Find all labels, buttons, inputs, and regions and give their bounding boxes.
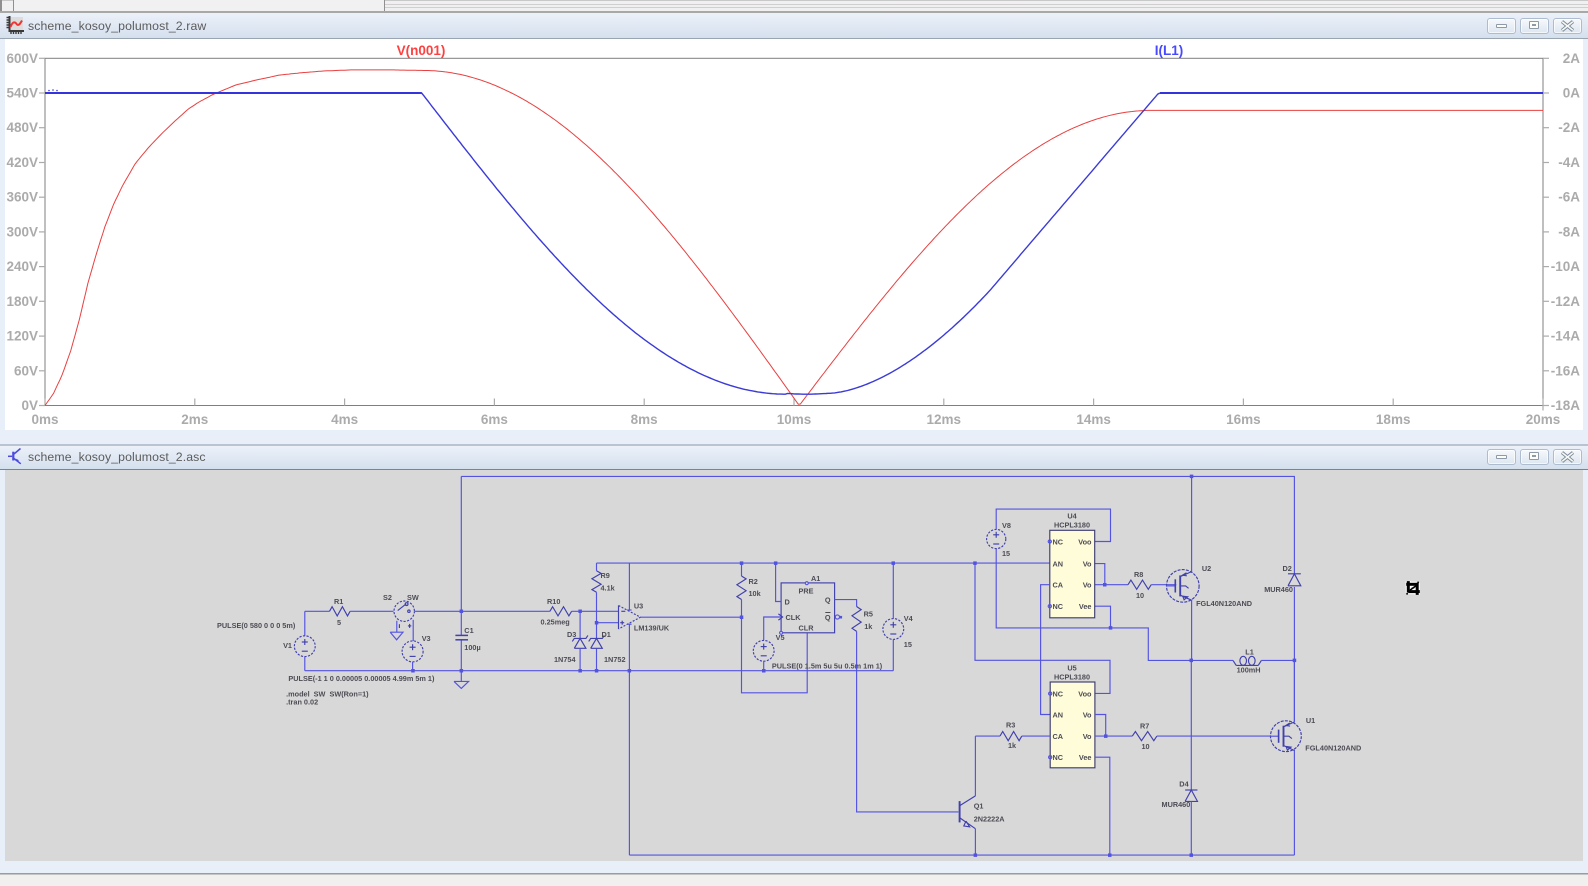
svg-text:10: 10 (1136, 591, 1144, 600)
svg-text:HCPL3180: HCPL3180 (1054, 521, 1090, 530)
svg-text:-2A: -2A (1558, 120, 1580, 135)
svg-text:Vo: Vo (1083, 710, 1092, 719)
svg-text:NC: NC (1053, 602, 1064, 611)
svg-text:PULSE(0 1.5m 5u 5u 0.5m 1m 1): PULSE(0 1.5m 5u 5u 0.5m 1m 1) (772, 662, 883, 671)
svg-text:NC: NC (1053, 753, 1064, 762)
svg-text:-12A: -12A (1551, 294, 1581, 309)
svg-text:540V: 540V (6, 86, 38, 101)
svg-text:-14A: -14A (1551, 329, 1581, 344)
svg-text:AN: AN (1053, 710, 1064, 719)
svg-text:PULSE(0 580 0 0 0 5m): PULSE(0 580 0 0 0 5m) (217, 621, 296, 630)
svg-text:U1: U1 (1306, 716, 1315, 725)
svg-text:0.25meg: 0.25meg (541, 618, 570, 627)
svg-text:V3: V3 (422, 634, 431, 643)
svg-text:120V: 120V (6, 329, 38, 344)
svg-text:Vee: Vee (1079, 753, 1092, 762)
svg-text:Q1: Q1 (974, 802, 984, 811)
svg-text:180V: 180V (6, 294, 38, 309)
svg-text:CLK: CLK (786, 613, 802, 622)
svg-text:LM139/UK: LM139/UK (634, 624, 670, 633)
svg-text:15: 15 (904, 640, 912, 649)
svg-text:240V: 240V (6, 259, 38, 274)
svg-text:R2: R2 (749, 577, 758, 586)
svg-text:10ms: 10ms (777, 412, 812, 427)
svg-text:100mH: 100mH (1237, 666, 1261, 675)
svg-text:D4: D4 (1179, 780, 1189, 789)
svg-text:Q: Q (825, 596, 831, 605)
svg-text:-16A: -16A (1551, 363, 1581, 378)
svg-text:V5: V5 (776, 633, 785, 642)
svg-text:Vo: Vo (1083, 559, 1092, 568)
svg-text:600V: 600V (6, 51, 38, 66)
svg-text:NC: NC (1053, 537, 1064, 546)
svg-text:PULSE(-1 1 0 0.00005 0.00005 4: PULSE(-1 1 0 0.00005 0.00005 4.99m 5m 1) (288, 674, 435, 683)
svg-text:Vee: Vee (1079, 602, 1092, 611)
svg-text:CLR: CLR (799, 623, 815, 632)
svg-text:2N2222A: 2N2222A (974, 815, 1006, 824)
svg-text:V4: V4 (904, 614, 914, 623)
svg-text:-18A: -18A (1551, 398, 1581, 413)
svg-text:Vo: Vo (1083, 732, 1092, 741)
svg-text:L1: L1 (1245, 648, 1254, 657)
svg-text:5: 5 (337, 618, 341, 627)
svg-text:A1: A1 (811, 574, 820, 583)
svg-text:D3: D3 (567, 630, 576, 639)
svg-text:60V: 60V (14, 363, 38, 378)
svg-text:1k: 1k (1008, 741, 1017, 750)
svg-text:1N752: 1N752 (604, 655, 626, 664)
svg-text:Voo: Voo (1078, 689, 1092, 698)
svg-text:AN: AN (1053, 559, 1064, 568)
svg-text:D2: D2 (1283, 564, 1292, 573)
svg-text:FGL40N120AND: FGL40N120AND (1196, 599, 1252, 608)
svg-text:6ms: 6ms (481, 412, 508, 427)
svg-text:R3: R3 (1006, 721, 1015, 730)
svg-text:R5: R5 (864, 610, 873, 619)
svg-text:10k: 10k (749, 589, 762, 598)
svg-text:MUR460: MUR460 (1162, 800, 1191, 809)
svg-text:R7: R7 (1140, 722, 1149, 731)
svg-text:MUR460: MUR460 (1264, 585, 1293, 594)
svg-text:Vo: Vo (1083, 581, 1092, 590)
svg-text:I(L1): I(L1) (1155, 43, 1184, 58)
svg-text:8ms: 8ms (631, 412, 658, 427)
svg-text:FGL40N120AND: FGL40N120AND (1305, 744, 1361, 753)
svg-text:V8: V8 (1002, 521, 1011, 530)
svg-text:PRE: PRE (798, 587, 813, 596)
svg-text:0ms: 0ms (31, 412, 58, 427)
svg-text:420V: 420V (6, 155, 38, 170)
svg-text:NC: NC (1053, 689, 1064, 698)
svg-text:R8: R8 (1134, 570, 1143, 579)
svg-text:-8A: -8A (1558, 224, 1580, 239)
svg-text:R1: R1 (334, 597, 343, 606)
svg-text:SW: SW (407, 593, 419, 602)
svg-text:V1: V1 (283, 641, 292, 650)
svg-text:100µ: 100µ (464, 643, 480, 652)
svg-text:Q: Q (825, 613, 831, 622)
svg-text:4.1k: 4.1k (601, 584, 616, 593)
svg-text:4ms: 4ms (331, 412, 358, 427)
svg-text:R10: R10 (547, 597, 560, 606)
svg-text:U5: U5 (1067, 664, 1076, 673)
svg-text:U4: U4 (1067, 512, 1077, 521)
svg-text:U3: U3 (634, 602, 643, 611)
svg-text:10: 10 (1142, 742, 1150, 751)
svg-text:D: D (785, 598, 790, 607)
svg-text:C1: C1 (464, 626, 473, 635)
svg-text:16ms: 16ms (1226, 412, 1261, 427)
svg-text:R9: R9 (601, 571, 610, 580)
svg-text:20ms: 20ms (1526, 412, 1561, 427)
svg-text:HCPL3180: HCPL3180 (1054, 673, 1090, 682)
svg-text:1N754: 1N754 (554, 655, 576, 664)
svg-text:15: 15 (1002, 549, 1010, 558)
svg-text:14ms: 14ms (1076, 412, 1111, 427)
svg-text:Voo: Voo (1078, 537, 1092, 546)
svg-text:S2: S2 (383, 593, 392, 602)
svg-text:-10A: -10A (1551, 259, 1581, 274)
svg-text:18ms: 18ms (1376, 412, 1411, 427)
svg-text:2ms: 2ms (181, 412, 208, 427)
svg-text:1k: 1k (864, 622, 873, 631)
svg-text:V(n001): V(n001) (397, 43, 446, 58)
svg-text:U2: U2 (1202, 564, 1211, 573)
svg-text:.tran 0.02: .tran 0.02 (286, 698, 318, 707)
svg-text:-4A: -4A (1558, 155, 1580, 170)
svg-text:CA: CA (1053, 581, 1064, 590)
svg-text:0V: 0V (21, 398, 38, 413)
svg-text:300V: 300V (6, 224, 38, 239)
svg-text:2A: 2A (1563, 51, 1581, 66)
svg-text:12ms: 12ms (927, 412, 962, 427)
svg-text:-6A: -6A (1558, 190, 1580, 205)
svg-text:480V: 480V (6, 120, 38, 135)
svg-text:CA: CA (1053, 732, 1064, 741)
svg-text:D1: D1 (602, 630, 611, 639)
svg-text:360V: 360V (6, 190, 38, 205)
svg-text:0A: 0A (1563, 86, 1581, 101)
